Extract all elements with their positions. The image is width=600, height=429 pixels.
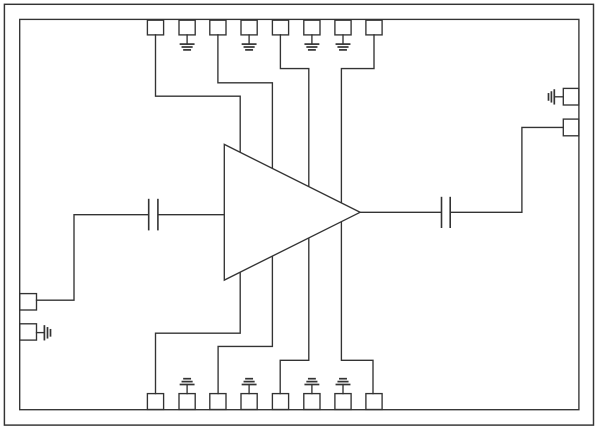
ground at top pad 4 [243, 35, 256, 50]
wire net: top pad 3 feedthrough to bottom pad 3 [218, 35, 273, 394]
ground at bottom pad 7 [336, 379, 349, 394]
op-amp U1 (amplifier triangle, occludes feedthrough wires) [224, 144, 360, 280]
ground at right pad [549, 90, 564, 104]
bottom pad 3 [210, 394, 226, 410]
wire: C1 to amplifier input [159, 214, 224, 216]
capacitor C1 left plate [148, 200, 150, 230]
top pad 4 [241, 20, 257, 35]
top pad 8 [366, 20, 382, 35]
ground at bottom pad 4 [243, 379, 256, 394]
wire net: top pad 1 feedthrough to bottom pad 1 [156, 35, 241, 394]
bottom pad 8 [366, 394, 382, 410]
right ground pad [563, 88, 579, 105]
right output pad [563, 119, 579, 136]
bottom pad 2 [179, 394, 195, 410]
capacitor C2 right plate [449, 198, 451, 228]
ground at bottom pad 6 [305, 379, 318, 394]
wire: amplifier output to coupling capacitor C2 [360, 211, 441, 213]
top pad 5 [272, 20, 288, 35]
bottom pad 4 [241, 394, 257, 410]
wire: input pad to coupling capacitor C1 [37, 215, 149, 301]
capacitor C1 right plate [157, 200, 159, 230]
left input pad [20, 294, 37, 310]
top pad 2 [179, 20, 195, 35]
ground at top pad 6 [305, 35, 318, 50]
bottom pad 6 [304, 394, 320, 410]
bottom pad 7 [335, 394, 351, 410]
wire net: top pad 5 feedthrough to bottom pad 5 [280, 35, 309, 394]
top pad 6 [304, 20, 320, 35]
top pad 7 [335, 20, 351, 35]
capacitor C2 left plate [441, 198, 443, 228]
left ground pad [20, 324, 37, 340]
top pad 3 [210, 20, 226, 35]
ground at left pad [37, 326, 51, 340]
bottom pad 5 [272, 394, 288, 410]
ground at top pad 7 [336, 35, 349, 50]
top pad 1 [147, 20, 163, 35]
wire net: top pad 8 feedthrough to bottom pad 8 [341, 35, 374, 394]
ground at bottom pad 2 [181, 379, 194, 394]
wire: C2 to output pad [451, 127, 563, 212]
bottom pad 1 [147, 394, 163, 410]
ground at top pad 2 [181, 35, 194, 50]
